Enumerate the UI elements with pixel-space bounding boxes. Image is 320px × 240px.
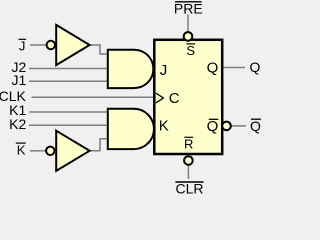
svg-text:J1: J1 <box>12 72 27 88</box>
svg-text:K: K <box>159 118 169 135</box>
svg-text:Q: Q <box>207 118 219 135</box>
svg-text:J: J <box>160 62 168 79</box>
svg-text:S: S <box>186 43 195 58</box>
svg-text:K: K <box>17 143 26 158</box>
svg-text:Q: Q <box>250 118 261 134</box>
svg-text:K2: K2 <box>9 116 26 132</box>
svg-text:Q: Q <box>207 59 219 76</box>
svg-text:Q: Q <box>250 59 261 75</box>
svg-text:J: J <box>19 39 26 54</box>
svg-text:R: R <box>184 137 193 152</box>
svg-text:PRE: PRE <box>174 1 203 17</box>
svg-text:C: C <box>169 90 180 107</box>
